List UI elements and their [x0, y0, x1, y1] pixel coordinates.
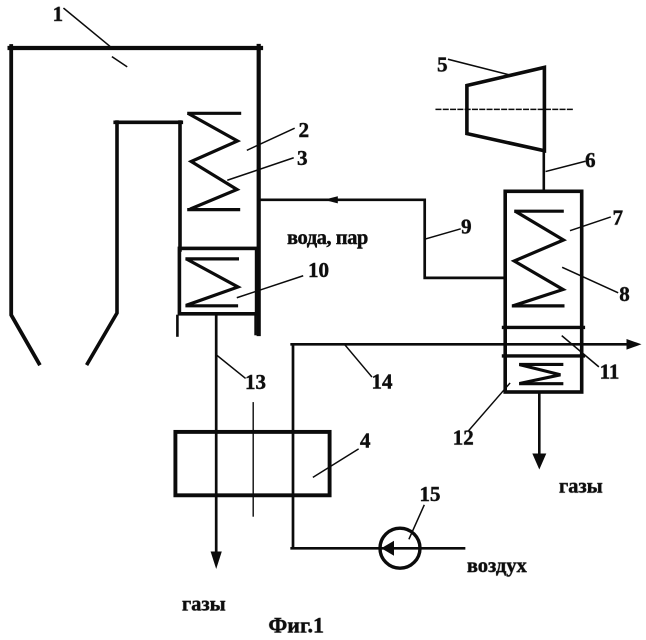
svg-text:воздух: воздух [467, 555, 528, 577]
svg-text:3: 3 [297, 146, 308, 170]
svg-text:9: 9 [461, 215, 472, 239]
svg-text:13: 13 [245, 370, 266, 394]
svg-text:газы: газы [182, 593, 226, 615]
svg-text:1: 1 [53, 2, 64, 26]
svg-text:вода, пар: вода, пар [287, 227, 368, 249]
svg-text:12: 12 [453, 426, 474, 450]
svg-text:Фиг.1: Фиг.1 [268, 612, 324, 637]
svg-text:6: 6 [585, 148, 596, 172]
svg-text:7: 7 [613, 206, 624, 230]
svg-text:11: 11 [600, 360, 620, 384]
svg-text:4: 4 [360, 428, 371, 452]
svg-text:2: 2 [299, 118, 310, 142]
svg-text:газы: газы [559, 476, 603, 498]
svg-text:14: 14 [371, 370, 393, 394]
svg-text:8: 8 [619, 282, 630, 306]
svg-text:10: 10 [308, 258, 329, 282]
svg-text:15: 15 [419, 482, 440, 506]
svg-text:5: 5 [437, 53, 448, 77]
